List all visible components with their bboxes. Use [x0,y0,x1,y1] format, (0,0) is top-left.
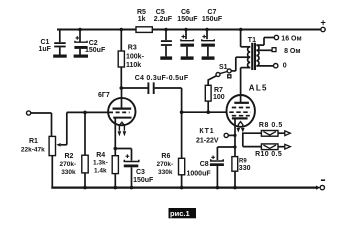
svg-text:8 Ом: 8 Ом [284,48,300,55]
svg-text:1.4k: 1.4k [94,168,107,175]
svg-text:C4 0.3uF-0.5uF: C4 0.3uF-0.5uF [135,75,189,82]
svg-text:22k-47k: 22k-47k [21,146,45,153]
svg-text:T1: T1 [248,37,256,44]
svg-text:R3: R3 [128,45,137,52]
svg-text:1.3k-: 1.3k- [93,160,108,167]
svg-text:C8: C8 [200,161,209,168]
svg-text:R10 0.5: R10 0.5 [255,151,282,158]
svg-text:1uF: 1uF [39,46,52,53]
svg-text:S1: S1 [219,64,228,71]
svg-text:C1: C1 [41,39,50,46]
svg-text:150uF: 150uF [202,16,223,23]
svg-text:100: 100 [213,94,225,101]
svg-text:1000uF: 1000uF [187,171,212,178]
svg-text:150uF: 150uF [177,16,198,23]
svg-text:0: 0 [283,63,287,70]
svg-text:270k-: 270k- [60,161,77,168]
svg-text:2.2uF: 2.2uF [154,16,173,23]
svg-text:R4: R4 [96,152,105,159]
svg-text:6Г7: 6Г7 [98,92,110,99]
svg-text:330k: 330k [158,169,173,176]
svg-text:21-22V: 21-22V [196,137,219,144]
svg-text:рис.1: рис.1 [170,209,190,218]
svg-text:1k: 1k [138,16,146,23]
svg-text:270k-: 270k- [157,161,174,168]
svg-text:+: + [321,18,326,28]
svg-text:110k: 110k [126,62,141,69]
svg-text:C2: C2 [89,40,98,47]
svg-text:330: 330 [239,165,251,172]
svg-text:R2: R2 [65,153,74,160]
svg-text:AL5: AL5 [249,83,268,92]
svg-text:R6: R6 [161,153,170,160]
svg-text:R9: R9 [239,158,247,164]
svg-text:330k: 330k [61,169,76,176]
svg-text:150uF: 150uF [133,177,154,184]
svg-text:150uF: 150uF [85,47,106,54]
svg-text:C3: C3 [136,169,145,176]
svg-text:16 Ом: 16 Ом [281,35,301,42]
svg-text:КТ1: КТ1 [199,128,214,135]
svg-text:R8 0.5: R8 0.5 [259,122,283,129]
svg-text:R1: R1 [29,138,38,145]
svg-text:100k-: 100k- [126,54,145,61]
